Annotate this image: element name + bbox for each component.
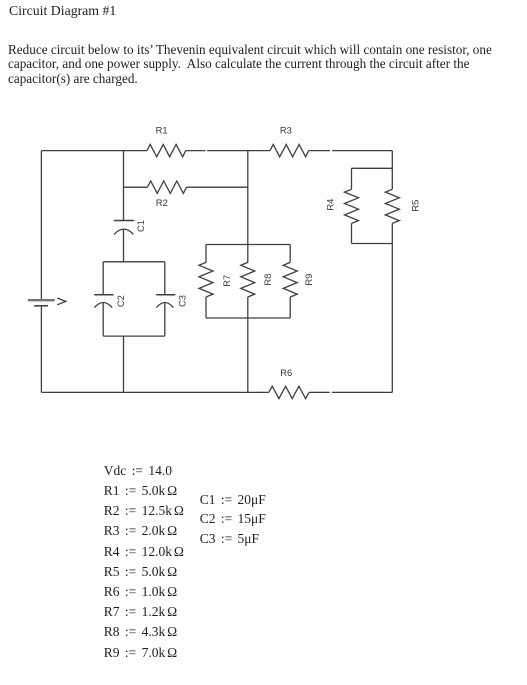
svg-text:R3: R3 bbox=[280, 125, 292, 136]
svg-text:R7: R7 bbox=[221, 275, 232, 287]
svg-text:C1: C1 bbox=[135, 220, 146, 232]
svg-text:R6: R6 bbox=[280, 367, 292, 378]
svg-text:R5: R5 bbox=[410, 200, 421, 212]
svg-text:R2: R2 bbox=[156, 197, 168, 208]
svg-text:R9: R9 bbox=[303, 274, 314, 286]
svg-text:R4: R4 bbox=[325, 199, 336, 211]
svg-text:R8: R8 bbox=[262, 274, 273, 286]
svg-text:C3: C3 bbox=[177, 295, 188, 307]
svg-text:C2: C2 bbox=[115, 295, 126, 307]
svg-text:R1: R1 bbox=[156, 125, 168, 136]
